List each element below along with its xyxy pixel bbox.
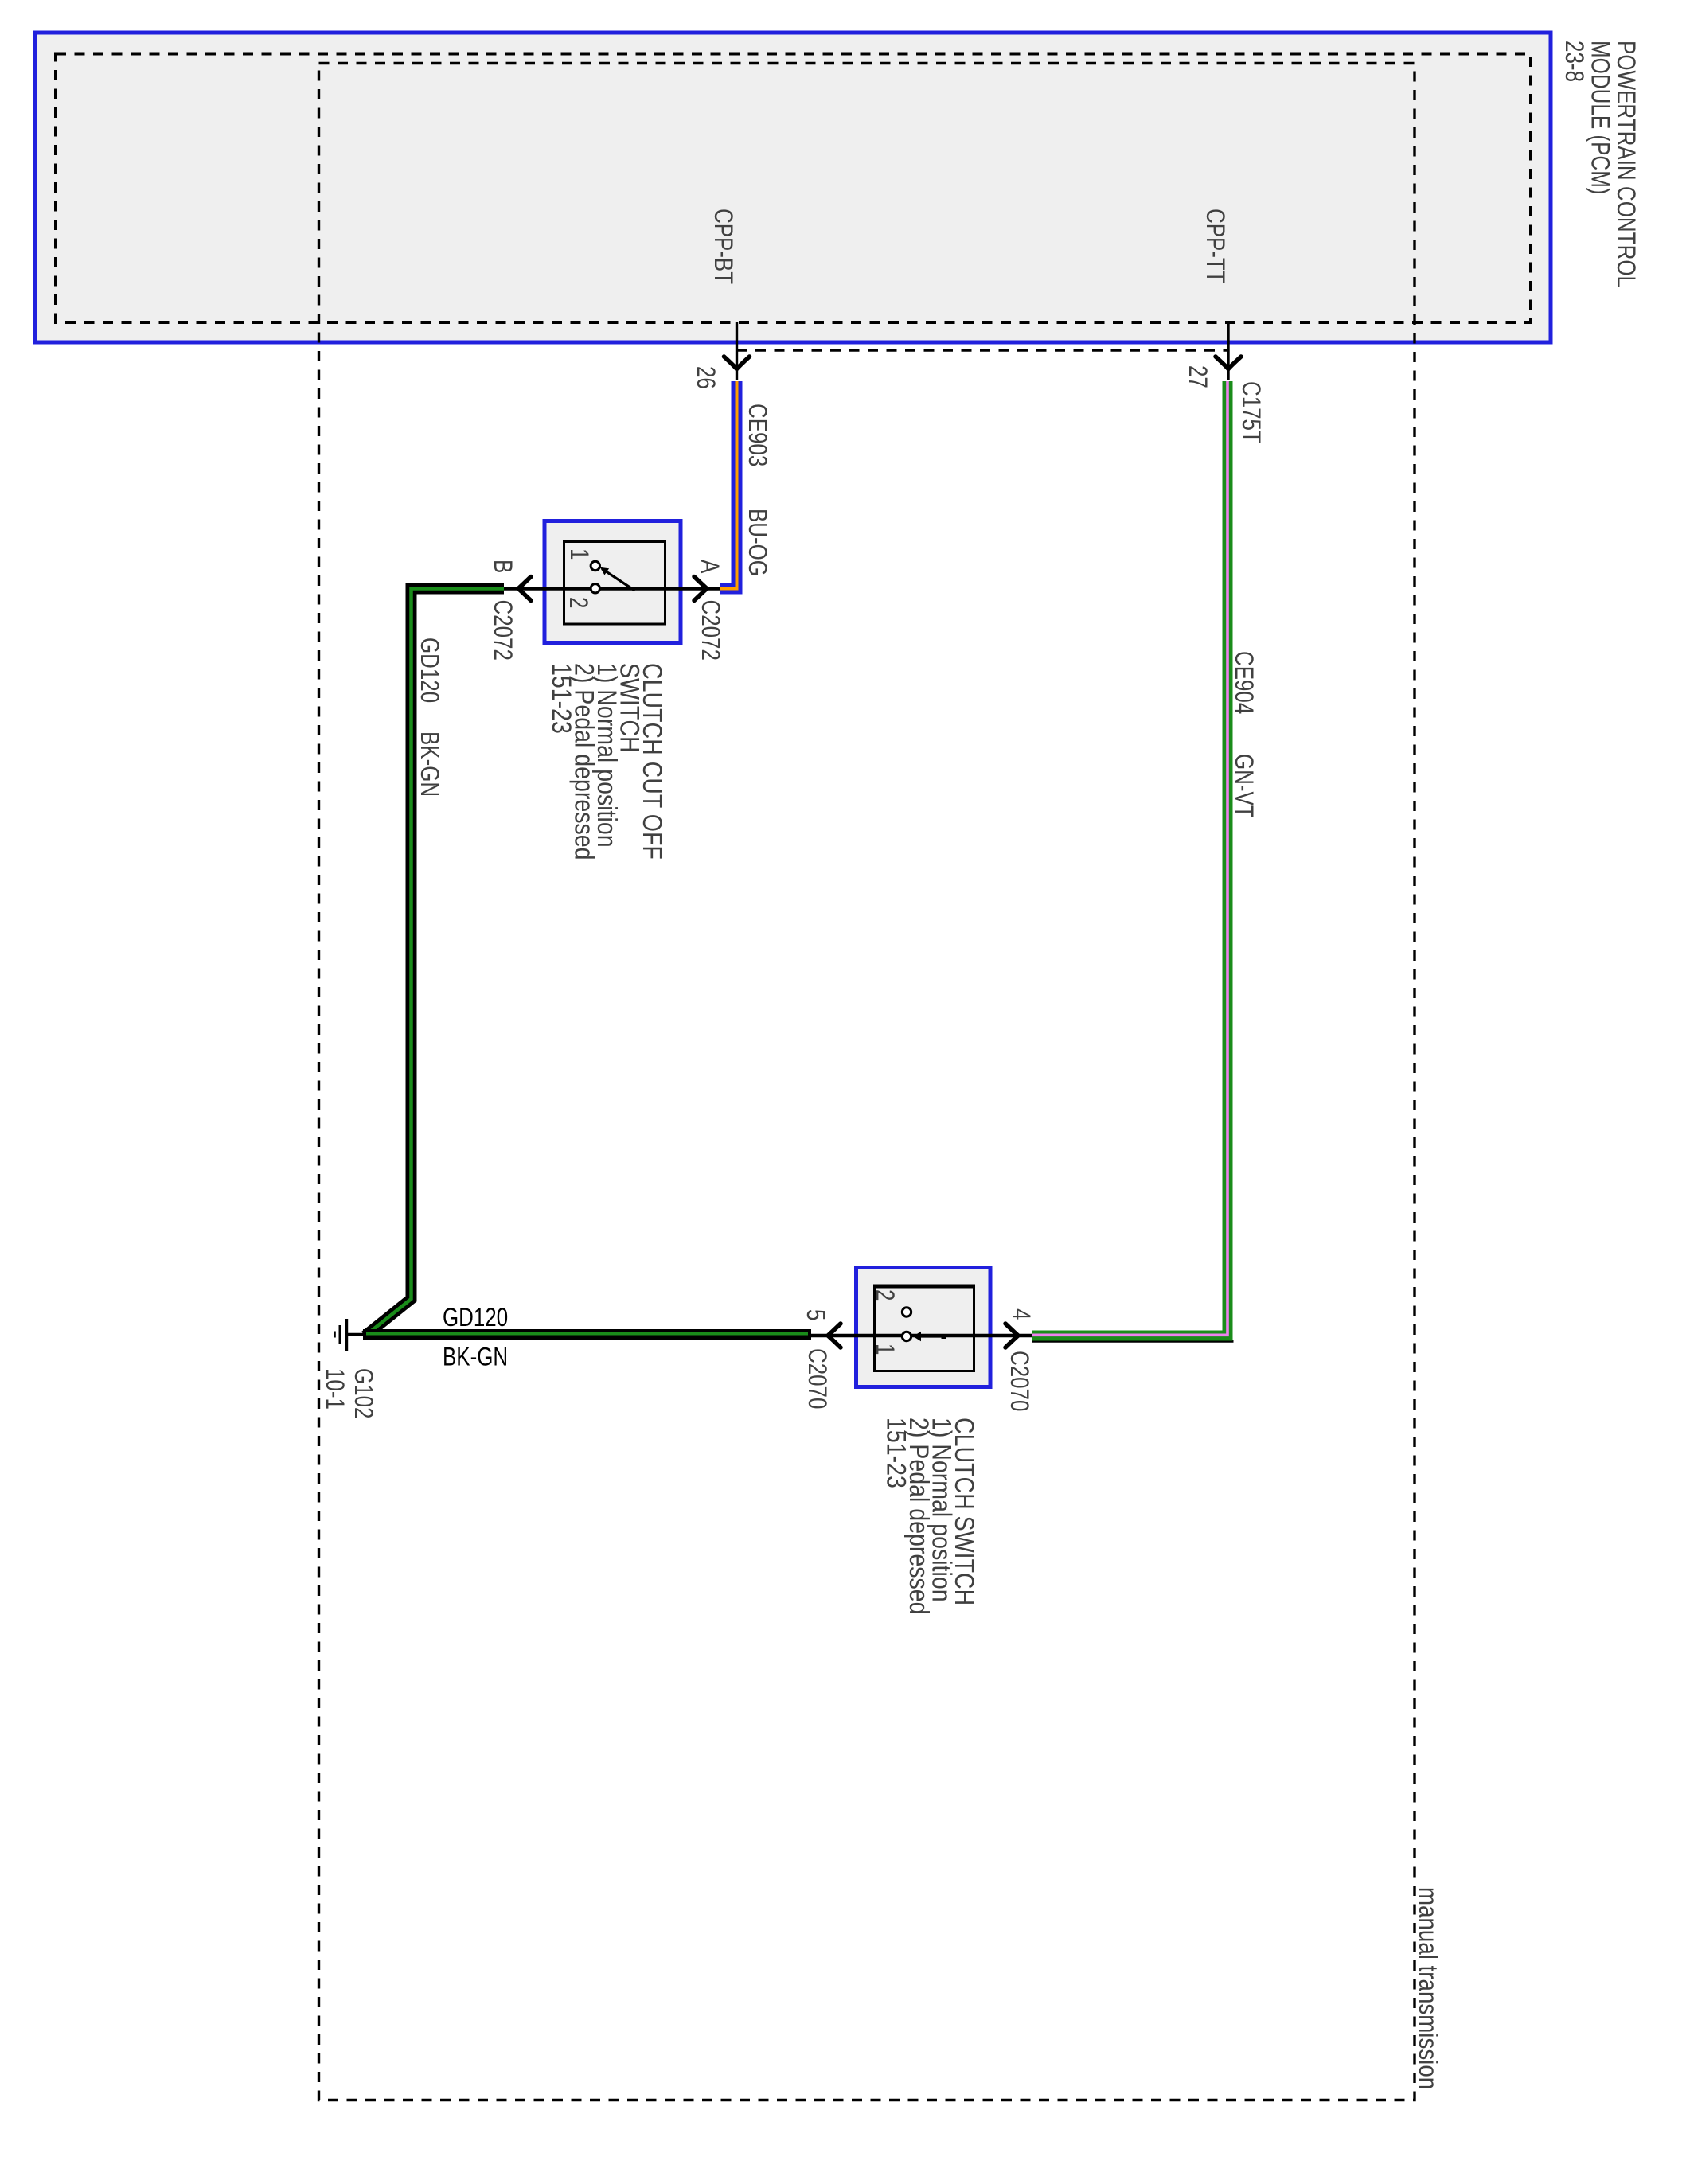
svg-text:C2070: C2070 [1005,1351,1032,1411]
svg-text:BK-GN: BK-GN [415,731,443,797]
svg-text:27: 27 [1183,365,1211,388]
svg-text:BU-OG: BU-OG [743,509,771,576]
svg-text:BK-GN: BK-GN [443,1344,508,1371]
svg-text:manual transmission: manual transmission [1413,1887,1442,2089]
svg-text:G102: G102 [349,1368,377,1418]
svg-text:CE903: CE903 [743,404,771,466]
svg-text:C2072: C2072 [488,600,516,661]
svg-text:POWERTRAIN CONTROL: POWERTRAIN CONTROL [1611,41,1640,287]
svg-text:B: B [488,560,516,573]
svg-text:CPP-TT: CPP-TT [1200,209,1228,283]
svg-text:10-1: 10-1 [320,1368,348,1410]
svg-text:2: 2 [564,597,591,608]
svg-text:26: 26 [691,366,719,389]
svg-text:GD120: GD120 [415,638,443,703]
svg-text:1: 1 [564,548,592,560]
svg-text:4: 4 [1006,1308,1034,1320]
svg-text:151-23: 151-23 [881,1418,911,1488]
svg-text:GN-VT: GN-VT [1229,754,1257,818]
svg-text:2: 2 [870,1289,898,1301]
svg-text:C175T: C175T [1236,381,1264,443]
svg-text:A: A [695,560,723,574]
svg-text:151-23: 151-23 [546,663,576,734]
svg-text:C2070: C2070 [802,1348,830,1409]
svg-text:23-8: 23-8 [1559,41,1588,82]
svg-text:GD120: GD120 [443,1305,508,1332]
svg-text:1: 1 [870,1344,898,1355]
svg-text:CPP-BT: CPP-BT [708,209,736,284]
svg-text:MODULE (PCM): MODULE (PCM) [1586,41,1614,195]
svg-text:CE904: CE904 [1229,651,1257,714]
svg-text:C2072: C2072 [696,600,724,661]
svg-text:5: 5 [801,1309,829,1320]
